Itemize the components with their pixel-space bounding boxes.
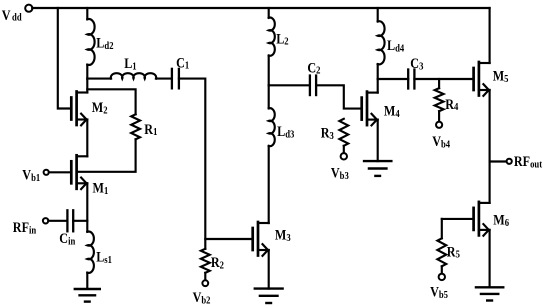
inductor Ls1: [87, 232, 112, 289]
inductor Ld4: [378, 8, 405, 79]
capacitor Cin: [59, 210, 75, 247]
terminal Vdd: [2, 5, 33, 24]
capacitor C3: [408, 55, 423, 89]
wire M3 source down: [268, 250, 270, 289]
wire rail to M5 drain: [489, 8, 491, 63]
wire M2 gate feed: [58, 8, 72, 109]
ground M3: [255, 289, 283, 303]
wire Vb1 to M1 gate: [49, 171, 72, 173]
wire node A line: [87, 78, 111, 80]
terminal Vb1: [22, 166, 49, 184]
wire M2 drain up: [86, 79, 88, 93]
terminal RFin: [13, 218, 49, 237]
wire node B line: [269, 84, 310, 86]
wire M1 source down: [86, 183, 88, 232]
transistor M3: [253, 222, 291, 256]
resistor R5: [437, 238, 460, 273]
wire M4 drain up: [377, 79, 379, 93]
resistor R4: [435, 79, 459, 121]
inductor L1: [111, 55, 156, 79]
inductor Ld3: [269, 85, 295, 223]
wire Vdd rail: [32, 7, 489, 9]
wire R1 bottom to M1 drain: [78, 139, 136, 172]
ground Ls1: [75, 289, 100, 302]
wire RFout stub: [490, 160, 506, 162]
terminal Vb4: [432, 122, 450, 151]
wire L1 to C1: [156, 78, 172, 80]
ground M4: [364, 161, 391, 176]
terminal RFout: [507, 153, 543, 171]
terminal Vb3: [331, 153, 349, 182]
wire RFin to Cin: [48, 220, 67, 222]
wire R1 top: [87, 89, 135, 114]
terminal Vb5: [430, 274, 448, 302]
ground M6: [476, 287, 503, 300]
transistor M4: [362, 92, 400, 126]
terminal Vb2: [193, 280, 211, 306]
wire M4 source down: [377, 120, 379, 162]
resistor R1: [131, 114, 157, 139]
capacitor C2: [307, 59, 320, 95]
resistor R2: [201, 239, 224, 280]
transistor M6: [474, 202, 510, 236]
resistor R3: [321, 119, 349, 152]
wire M6 source down: [489, 230, 491, 287]
transistor M1: [71, 155, 108, 197]
wire C1 to M3 gate: [179, 79, 253, 239]
capacitor C1: [172, 54, 189, 88]
transistor M2: [71, 92, 107, 126]
inductor Ld2: [87, 8, 113, 79]
wire C3 to M5 gate: [414, 78, 473, 80]
wire Cin to node: [73, 220, 87, 222]
inductor L2: [269, 8, 289, 85]
wire C2 to M4 gate: [316, 85, 362, 108]
wire M5 source to M6 drain: [489, 90, 491, 203]
wire M2 source to M1 drain: [86, 120, 88, 157]
wire R5 corner: [441, 219, 443, 238]
wire M6 gate feed: [442, 218, 474, 220]
wire node C line: [378, 78, 409, 80]
transistor M5: [474, 62, 509, 96]
